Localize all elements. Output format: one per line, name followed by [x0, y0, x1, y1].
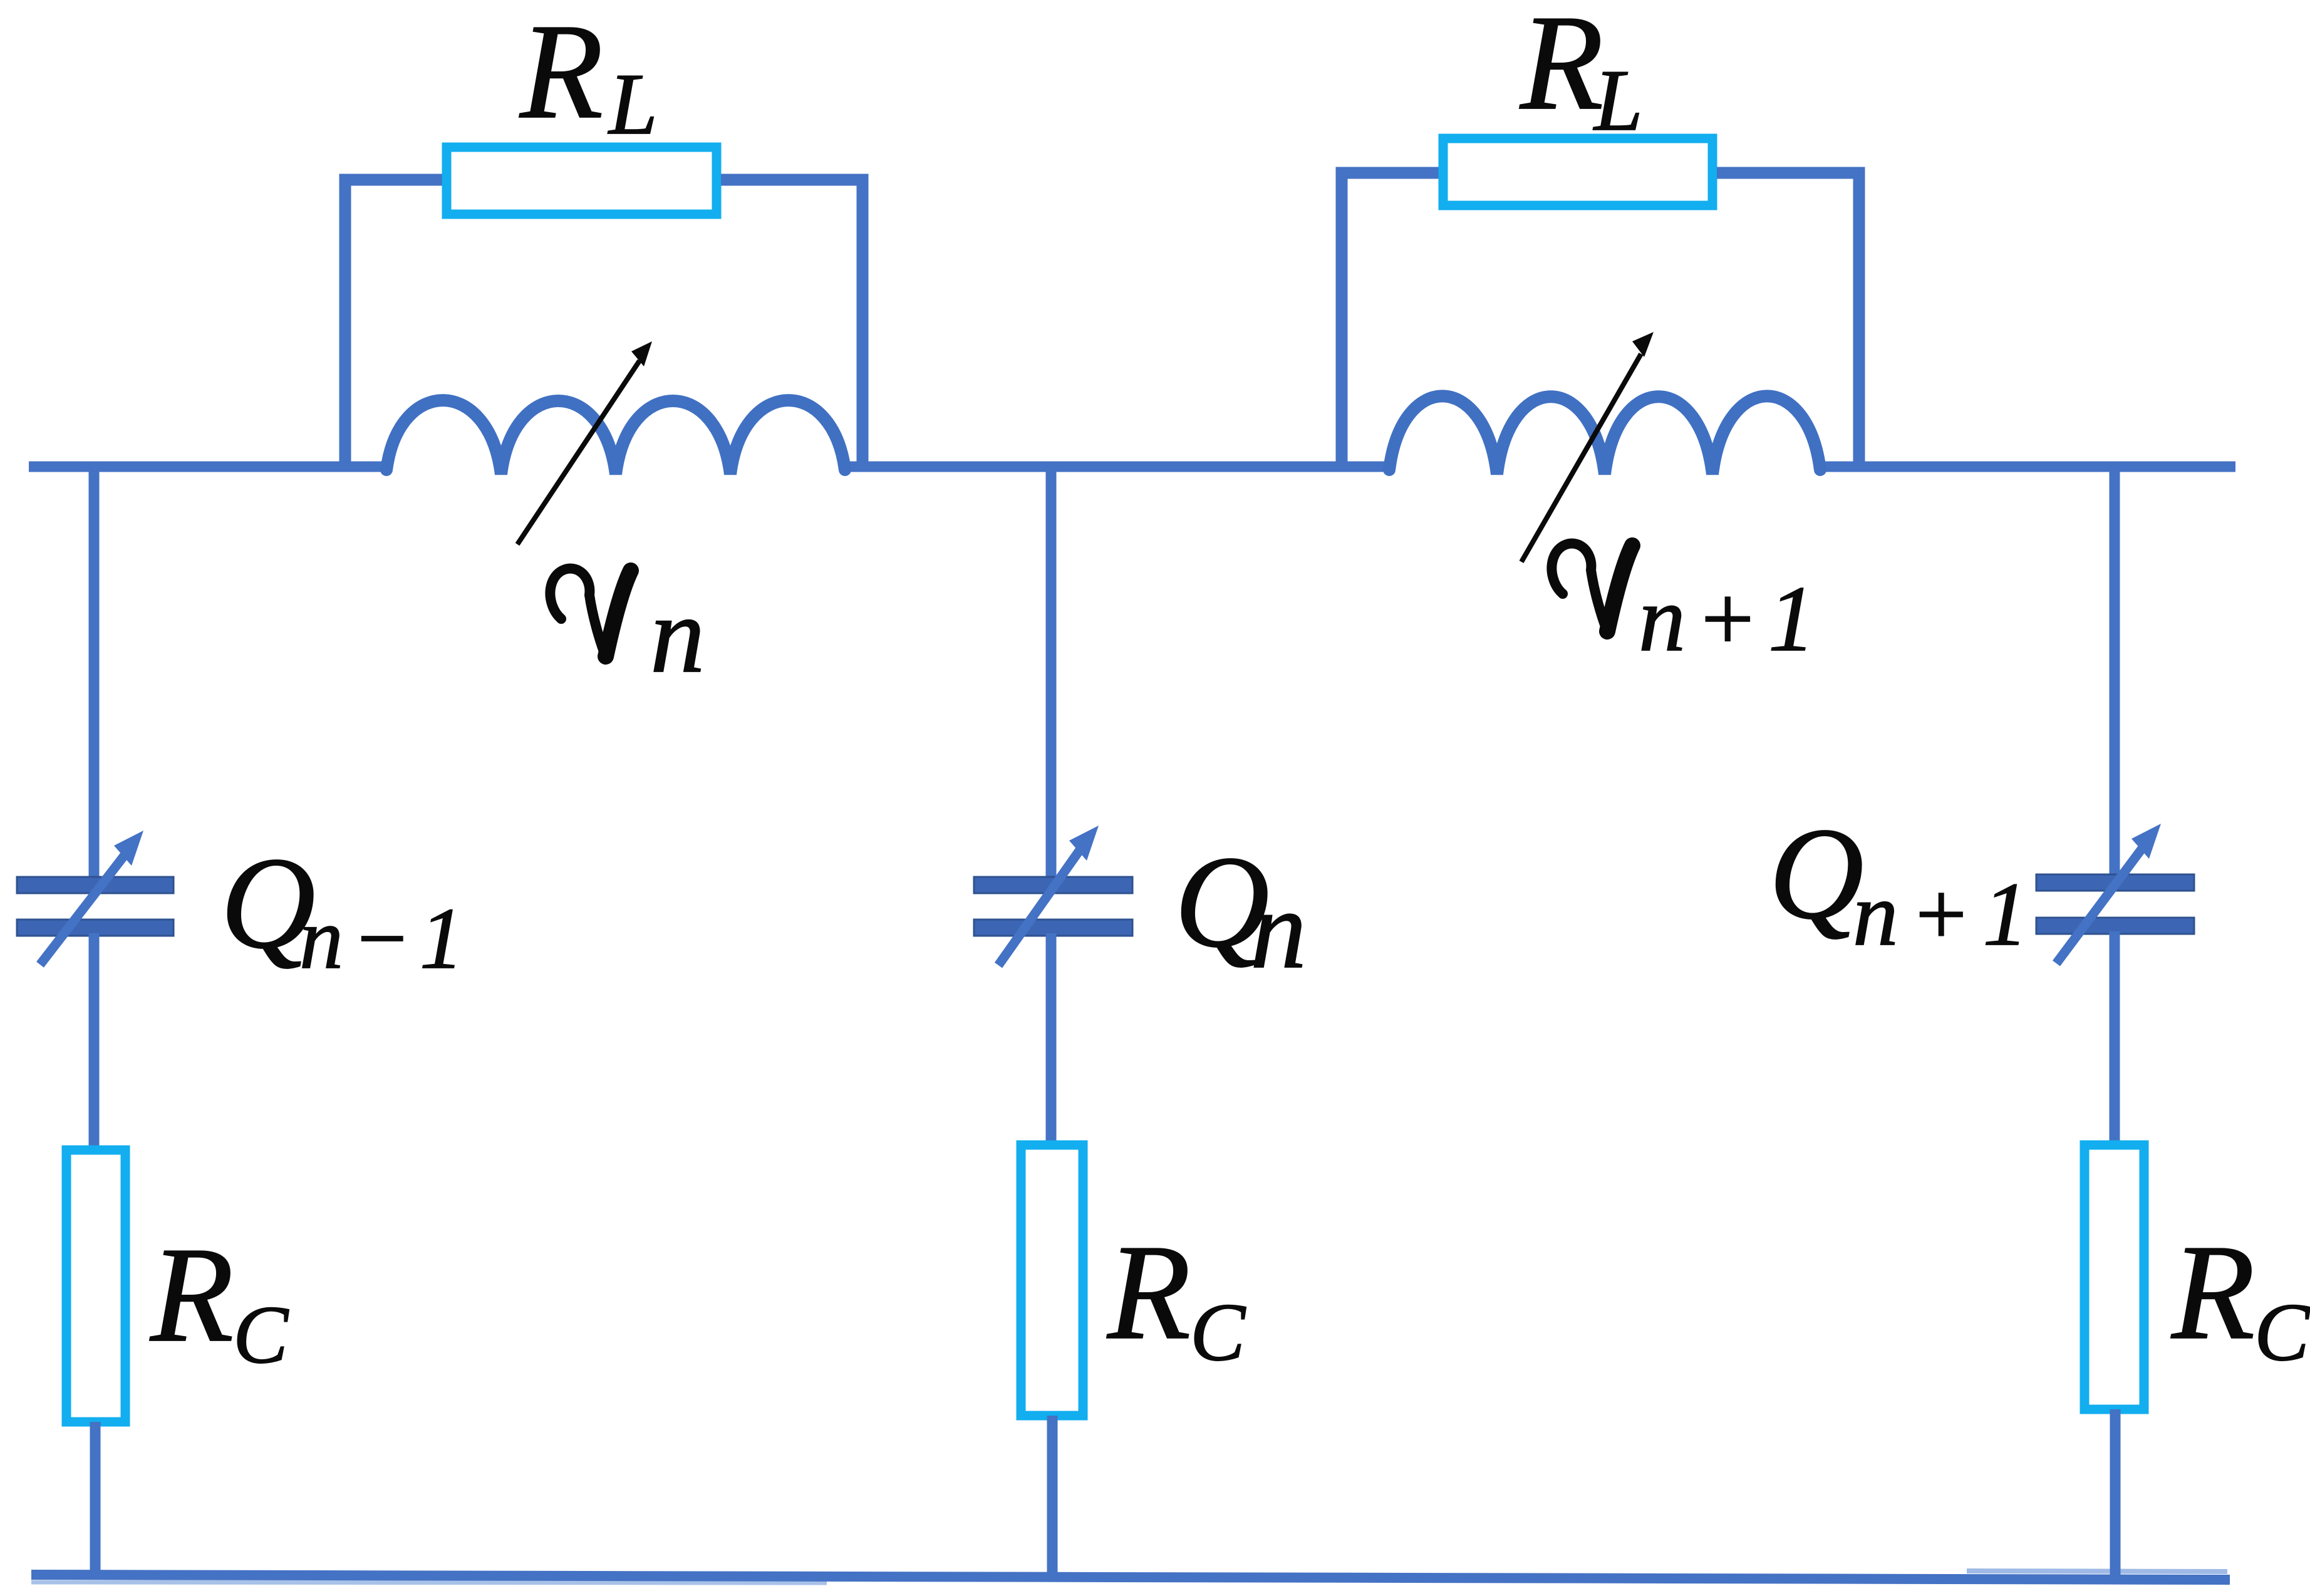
resistor RL (left cell): [447, 147, 717, 214]
svg-text:C: C: [1190, 1286, 1246, 1378]
wire: cell-2 left riser and stub to RL: [1342, 173, 1439, 462]
wire: Qn to RC middle: [1046, 933, 1057, 1144]
resistor RC (right branch): [2085, 1145, 2144, 1409]
wire: right branch riser (top bus to Qn+1): [2110, 467, 2120, 877]
wire: bottom return bus: [31, 1571, 2230, 1583]
capacitor Qn+1 (variable): [2036, 824, 2194, 963]
wire: RC left to bottom bus: [90, 1422, 101, 1575]
svg-text:R: R: [149, 1220, 234, 1371]
svg-text:R: R: [1519, 0, 1603, 138]
resistor RL (right cell): [1443, 138, 1712, 205]
resistor RC (middle branch): [1021, 1145, 1083, 1416]
arrow over inductor Vn+1: [1521, 332, 1654, 562]
wire: left branch riser (top bus to Qn-1): [89, 467, 100, 879]
svg-text:R: R: [1106, 1217, 1191, 1368]
inductor Vn (variable, 4 arcs): [386, 400, 845, 474]
label RL (right cell): [1519, 0, 1643, 149]
wire: RC middle to bottom bus: [1047, 1416, 1058, 1577]
wire: cell-2 right riser and stub from RL: [1717, 173, 1859, 462]
svg-text:n: n: [650, 574, 705, 695]
svg-text:R: R: [519, 0, 603, 147]
arrow over inductor Vn: [517, 341, 652, 544]
label Vn (script V with subscript n): [550, 569, 705, 695]
wire: top horizontal bus: [29, 462, 2235, 472]
wire: middle branch riser (top bus to Qn): [1046, 467, 1057, 879]
label Qn-1: [220, 831, 464, 987]
svg-text:n: n: [1250, 867, 1307, 992]
wire: Qn-1 to RC left: [89, 933, 100, 1149]
svg-text:n + 1: n + 1: [1853, 864, 2028, 965]
wire: cell-1 left riser and stub to RL: [345, 180, 442, 462]
label RC (left): [149, 1220, 289, 1381]
svg-text:n−1: n−1: [299, 890, 464, 987]
svg-text:C: C: [2254, 1286, 2310, 1378]
label RL (left cell): [519, 0, 658, 153]
svg-text:C: C: [233, 1288, 289, 1381]
label RC (right): [2170, 1217, 2310, 1378]
svg-text:R: R: [2170, 1217, 2255, 1368]
capacitor Qn (variable): [974, 826, 1132, 965]
svg-text:n + 1: n + 1: [1639, 567, 1815, 671]
capacitor Qn-1 (variable): [17, 831, 174, 965]
wire: Qn+1 to RC right: [2110, 931, 2120, 1144]
wire: RC right to bottom bus: [2110, 1409, 2121, 1578]
label Qn+1: [1769, 801, 2028, 965]
svg-text:L: L: [608, 56, 658, 153]
label Vn+1 (script V with subscript n+1): [1551, 544, 1815, 671]
label RC (middle): [1106, 1217, 1246, 1378]
inductor Vn+1 (variable, 4 arcs): [1389, 396, 1820, 474]
svg-text:L: L: [1593, 52, 1643, 149]
label Qn: [1174, 829, 1307, 992]
wire: cell-1 right riser and stub from RL: [721, 180, 862, 462]
resistor RC (left branch): [66, 1150, 125, 1422]
svg-text:Q: Q: [1769, 801, 1864, 946]
